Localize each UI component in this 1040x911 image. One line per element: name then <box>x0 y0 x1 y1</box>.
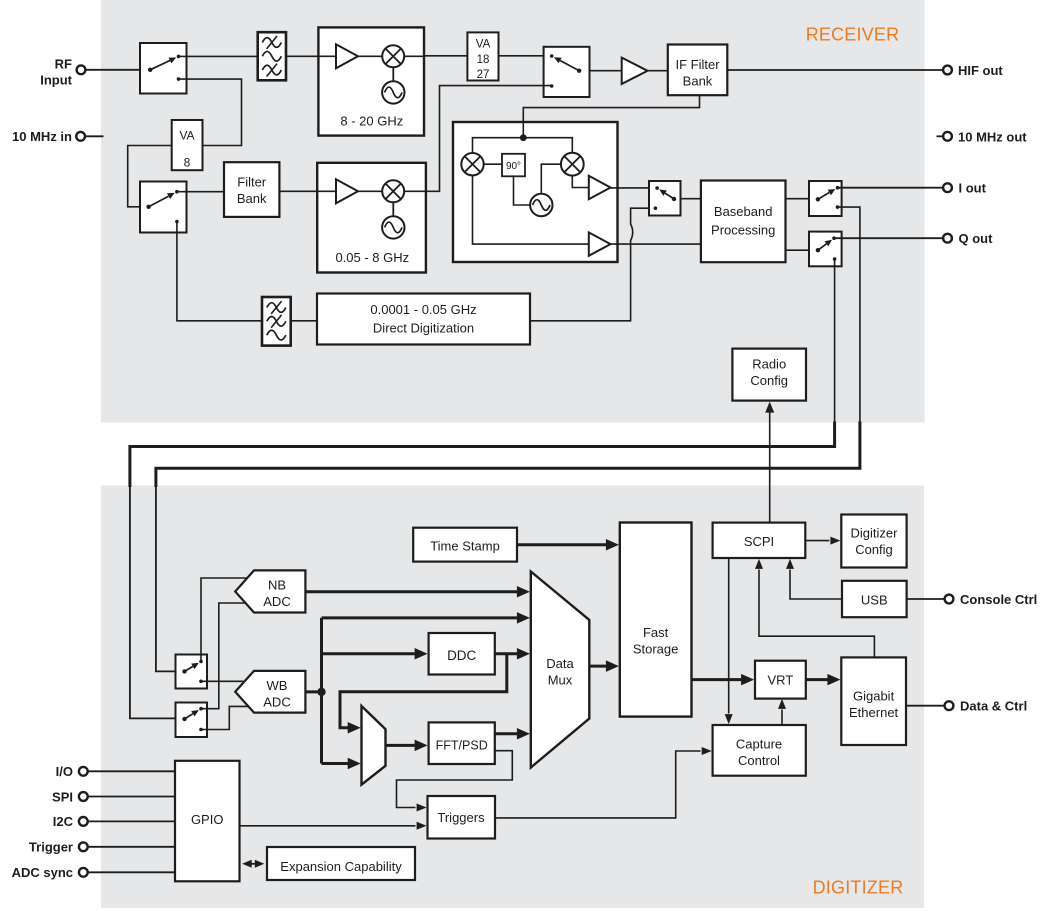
wire S1 to bandpass filter <box>179 55 258 57</box>
wire WB riser to DDC <box>322 648 428 660</box>
wire S1 to VA 8 <box>179 79 242 145</box>
svg-text:DDC: DDC <box>447 648 476 663</box>
wire GPIO to Triggers <box>240 822 427 830</box>
bandpass filter FL1 <box>258 32 286 80</box>
block GPIO <box>175 761 240 882</box>
switch S5 I out select <box>809 181 842 216</box>
wire Fast Storage to VRT <box>692 674 755 686</box>
port I/O <box>56 764 88 779</box>
svg-text:ADC sync: ADC sync <box>12 865 73 880</box>
mux Data Mux <box>531 572 590 768</box>
svg-text:Fast: Fast <box>643 625 669 640</box>
svg-text:Triggers: Triggers <box>437 810 485 825</box>
port I2C <box>53 814 88 829</box>
wire 90 deg shifter to LO3 <box>514 176 531 205</box>
wire A3 to IF Filter Bank <box>648 70 668 72</box>
mixer M3 I-path <box>461 153 483 175</box>
wire DDC output tap to small mux <box>340 654 507 734</box>
svg-text:I out: I out <box>959 181 987 196</box>
svg-text:ADC: ADC <box>263 594 290 609</box>
wire USB to SCPI <box>786 559 842 599</box>
block DDC <box>429 633 495 675</box>
switch S1 RF input select <box>140 43 187 94</box>
wire 10 MHz in stub <box>85 135 103 137</box>
block Radio Config <box>732 349 806 401</box>
wire S8 to NB ADC <box>201 603 246 709</box>
port SPI <box>52 789 88 804</box>
svg-text:Expansion Capability: Expansion Capability <box>280 859 402 874</box>
svg-text:Gigabit: Gigabit <box>853 689 895 704</box>
wire DDC to Data Mux <box>495 648 530 660</box>
wire WB riser bottom branch to small mux <box>322 758 361 769</box>
wire M1 to LO1 <box>392 67 394 81</box>
wire WB junction riser <box>320 618 323 764</box>
svg-text:VRT: VRT <box>768 673 794 688</box>
oscillator LO1 in 8-20 GHz block <box>382 81 404 103</box>
switch S2 low band select <box>140 182 187 233</box>
wire Filter Bank to 0.05-8 GHz block <box>279 190 336 192</box>
wire M4 to amplifier A4 <box>572 176 589 188</box>
svg-text:Ethernet: Ethernet <box>849 705 899 720</box>
wire RF Input to switch S1 <box>86 69 150 71</box>
switch S7 NB/WB select A <box>176 655 208 689</box>
svg-text:90°: 90° <box>506 161 521 172</box>
block 8 - 20 GHz downconverter <box>318 27 424 135</box>
wire FL2 to Direct Digitization block <box>291 320 317 322</box>
oscillator LO2 in 0.05-8 GHz block <box>382 216 404 238</box>
attenuator VA 8 <box>172 120 203 170</box>
svg-text:Data: Data <box>546 656 574 671</box>
svg-text:Baseband: Baseband <box>714 204 773 219</box>
svg-text:VA: VA <box>476 39 491 51</box>
wire I digitize feed into switch S7 <box>156 486 185 672</box>
wire small mux to FFT/PSD <box>386 740 428 752</box>
wire Baseband Processing to switch S5 <box>786 198 818 200</box>
switch S6 Q out select <box>809 232 842 267</box>
node IQ input junction <box>520 134 527 141</box>
block 0.05 - 8 GHz downconverter <box>317 163 426 273</box>
svg-text:0.05 - 8 GHz: 0.05 - 8 GHz <box>335 250 409 265</box>
amplifier A2 in 0.05-8 GHz block <box>336 179 358 203</box>
wire Q digitize feed into switch S8 <box>130 486 185 719</box>
svg-text:10 MHz out: 10 MHz out <box>958 129 1027 144</box>
block Triggers <box>428 796 496 839</box>
svg-text:Config: Config <box>855 542 893 557</box>
svg-text:27: 27 <box>477 69 490 81</box>
wire I2C to GPIO <box>88 820 175 822</box>
svg-text:GPIO: GPIO <box>191 812 224 827</box>
block USB <box>842 581 907 617</box>
svg-text:Mux: Mux <box>548 673 573 688</box>
amplifier A5 Q output amp <box>589 232 611 255</box>
wire IF Filter Bank tap to IQ demodulator <box>523 95 699 138</box>
svg-text:18: 18 <box>477 54 490 66</box>
wire VRT to Gigabit Ethernet <box>806 674 841 686</box>
switch S8 NB/WB select B <box>176 703 208 738</box>
svg-text:SPI: SPI <box>52 789 73 804</box>
wire 0.05-8 GHz block to switch S3 lower throw <box>426 86 552 192</box>
svg-text:Digitizer: Digitizer <box>851 526 899 541</box>
node WB ADC output junction <box>317 688 325 696</box>
svg-text:8: 8 <box>184 156 191 170</box>
converter WB ADC <box>235 671 305 713</box>
svg-text:Bank: Bank <box>683 74 713 89</box>
block VRT <box>755 661 806 699</box>
block SCPI <box>713 523 806 558</box>
block Digitizer Config <box>841 515 906 568</box>
wire S5 to I out port <box>838 187 944 189</box>
wire S3 to amplifier A3 <box>590 70 622 72</box>
wire SCPI to Capture Control <box>725 558 733 724</box>
svg-text:Direct Digitization: Direct Digitization <box>373 321 474 336</box>
oscillator LO3 IQ LO <box>530 194 552 216</box>
wire M3 to amplifier A5 <box>473 176 589 245</box>
svg-text:Radio: Radio <box>752 357 786 372</box>
svg-text:SCPI: SCPI <box>744 534 774 549</box>
port RF Input <box>40 57 85 88</box>
svg-text:HIF out: HIF out <box>958 63 1003 78</box>
svg-text:8 - 20 GHz: 8 - 20 GHz <box>340 114 403 129</box>
digitizer section background <box>101 486 924 909</box>
wire FL1 to 8-20 GHz block <box>286 55 336 57</box>
svg-text:Filter: Filter <box>237 175 267 190</box>
wire S7 to WB ADC <box>201 680 245 682</box>
block Filter Bank <box>224 162 279 217</box>
wire Trigger to GPIO <box>88 846 175 848</box>
wire IQ input split <box>473 138 573 153</box>
block Expansion Capability <box>267 847 415 880</box>
port Console Ctrl <box>945 592 1038 607</box>
svg-text:Processing: Processing <box>711 223 775 238</box>
wire I digitize feed thick crossover <box>156 422 860 488</box>
wire Triggers to Capture Control <box>495 747 712 818</box>
wire VA 18/27 to switch S3 <box>499 55 552 57</box>
wire S5 lower throw down (I digitize feed, thin part) <box>838 207 860 423</box>
svg-text:RECEIVER: RECEIVER <box>806 25 900 45</box>
svg-text:Trigger: Trigger <box>29 840 73 855</box>
block IQ demodulator <box>453 122 618 262</box>
svg-text:Storage: Storage <box>633 642 679 657</box>
port Q out <box>943 231 993 246</box>
wire M2 to LO2 <box>392 202 394 216</box>
switch S3 IF select <box>544 47 590 97</box>
switch S4 baseband select <box>649 181 681 216</box>
svg-text:RF: RF <box>55 57 72 72</box>
wire A5 to Baseband Processing <box>611 243 701 245</box>
receiver section background <box>101 0 925 423</box>
mux small FFT input mux <box>362 706 386 785</box>
wire S7 to NB ADC <box>201 578 248 662</box>
label DIGITIZER <box>813 878 904 898</box>
wire VA 8 to switch S2 <box>128 146 172 207</box>
svg-text:I2C: I2C <box>53 814 74 829</box>
wire Data Mux to Fast Storage <box>589 660 619 672</box>
mixer M1 in 8-20 GHz block <box>382 45 404 67</box>
wire Gigabit Ethernet to SCPI <box>755 559 874 658</box>
port I out <box>943 181 987 196</box>
wire ADC sync to GPIO <box>88 871 175 873</box>
amplifier A4 I output amp <box>589 176 611 199</box>
wire S2 to lowpass filter <box>177 222 262 321</box>
svg-text:VA: VA <box>179 129 194 143</box>
wire S8 to WB ADC <box>201 706 249 729</box>
block Gigabit Ethernet <box>841 657 906 745</box>
wire USB to Console Ctrl port <box>907 598 945 600</box>
wire Capture Control to VRT <box>778 699 786 725</box>
block Capture Control <box>713 725 806 776</box>
wire NB ADC to Data Mux <box>305 586 530 598</box>
wire M3 to 90 deg shifter <box>484 163 502 165</box>
svg-text:Bank: Bank <box>237 191 267 206</box>
attenuator VA 18/27 <box>467 32 498 81</box>
svg-text:10 MHz in: 10 MHz in <box>12 129 72 144</box>
mixer M4 Q-path <box>561 153 584 176</box>
wire 8-20 GHz block to VA 18/27 <box>424 55 467 57</box>
svg-text:Config: Config <box>750 373 788 388</box>
wire WB ADC to junction <box>305 690 321 693</box>
lowpass filter FL2 <box>262 297 291 346</box>
port Data & Ctrl <box>945 699 1028 714</box>
port HIF out <box>943 63 1003 78</box>
wire S6 lower throw down (Q digitize feed, thin part) <box>834 259 836 423</box>
wire Time Stamp to Fast Storage <box>517 539 619 551</box>
port ADC sync <box>12 865 88 880</box>
svg-text:Q out: Q out <box>959 231 994 246</box>
svg-text:Console Ctrl: Console Ctrl <box>960 592 1037 607</box>
block Fast Storage <box>620 523 692 717</box>
port 10 MHz in <box>12 129 85 144</box>
port Trigger <box>29 840 88 855</box>
wire LO3 to mixer M4 <box>541 164 561 194</box>
svg-text:Control: Control <box>738 753 780 768</box>
wire GPIO to Expansion Capability double arrow <box>242 860 264 868</box>
wire SCPI to Digitizer Config <box>805 537 840 545</box>
wire A4 to switch S4 <box>611 187 658 189</box>
wire IF Filter Bank to HIF out port <box>727 69 943 71</box>
svg-text:FFT/PSD: FFT/PSD <box>436 739 488 753</box>
wire FFT/PSD tap to Triggers <box>397 751 513 812</box>
wire I/O to GPIO <box>88 770 175 772</box>
wire Direct Digitization to switch S4 with crossover hop <box>530 208 655 321</box>
svg-text:USB: USB <box>861 593 888 608</box>
svg-text:NB: NB <box>268 578 286 593</box>
wire SCPI to Radio Config with up arrow <box>765 402 774 523</box>
block IF Filter Bank <box>668 45 728 96</box>
mixer M2 in 0.05-8 GHz block <box>382 180 404 202</box>
wire S2 to Filter Bank <box>177 191 224 193</box>
svg-text:Capture: Capture <box>736 737 782 752</box>
phase shifter 90deg box <box>502 154 525 177</box>
svg-text:WB: WB <box>267 678 288 693</box>
block Time Stamp <box>413 528 517 562</box>
svg-text:ADC: ADC <box>263 695 290 710</box>
block Direct Digitization <box>317 294 530 345</box>
svg-text:Input: Input <box>40 73 72 88</box>
svg-text:I/O: I/O <box>56 764 73 779</box>
wire SPI to GPIO <box>88 796 175 798</box>
wire Baseband Processing to switch S6 <box>786 249 818 251</box>
converter NB ADC <box>235 570 305 612</box>
wire FFT/PSD to Data Mux <box>495 728 530 740</box>
svg-text:Data & Ctrl: Data & Ctrl <box>960 699 1027 714</box>
port 10 MHz out <box>937 129 1028 144</box>
block FFT/PSD <box>429 722 495 764</box>
wire S6 to Q out port <box>834 237 943 239</box>
wire Q digitize feed thick crossover <box>130 422 835 488</box>
wire Gigabit Ethernet to Data & Ctrl port <box>906 705 945 707</box>
wire WB riser top branch to Data Mux <box>322 612 530 624</box>
svg-text:DIGITIZER: DIGITIZER <box>813 878 904 898</box>
svg-text:Time Stamp: Time Stamp <box>430 539 500 554</box>
amplifier A3 IF amp <box>622 58 648 84</box>
label RECEIVER <box>806 25 900 45</box>
svg-text:0.0001 - 0.05 GHz: 0.0001 - 0.05 GHz <box>370 302 476 317</box>
wire S4 to Baseband Processing <box>681 198 701 200</box>
svg-text:IF Filter: IF Filter <box>675 57 720 72</box>
amplifier A1 in 8-20 GHz block <box>336 44 358 68</box>
block Baseband Processing <box>701 181 786 263</box>
